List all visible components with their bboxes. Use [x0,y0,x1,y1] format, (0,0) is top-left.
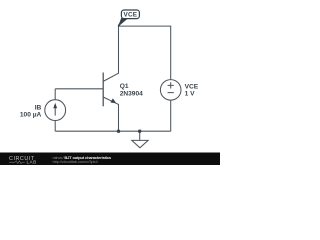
svg-text:2N3904: 2N3904 [120,91,143,98]
svg-text:VCE: VCE [185,83,199,90]
svg-text:LAB: LAB [27,160,37,165]
svg-text:100 µA: 100 µA [20,111,42,118]
svg-text:VCE: VCE [124,12,138,19]
svg-text:1 V: 1 V [185,90,195,97]
svg-text:http://circuitlab.com/c/3pk4: http://circuitlab.com/c/3pk4 [53,159,99,164]
svg-text:Q1: Q1 [120,83,129,90]
